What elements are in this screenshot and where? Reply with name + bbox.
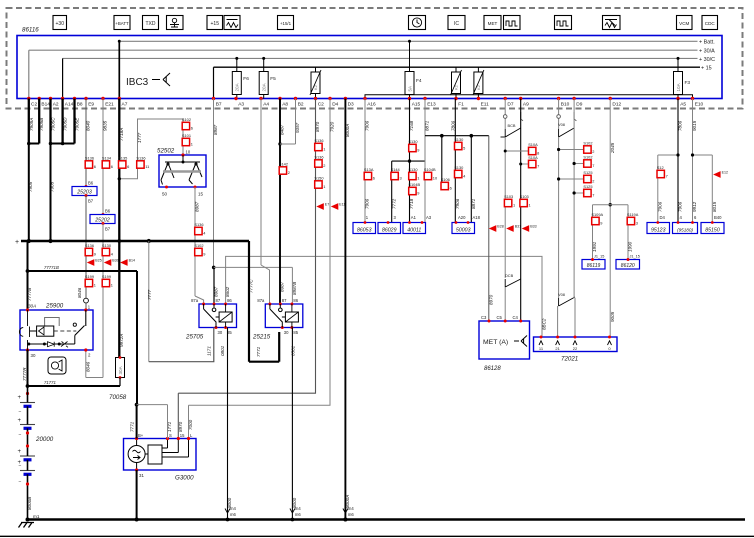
svg-text:E13: E13 (427, 102, 436, 108)
svg-text:(95180): (95180) (677, 227, 693, 232)
svg-text:S136: S136 (85, 243, 94, 248)
svg-text:7771: 7771 (130, 421, 135, 432)
splice S102 (584, 146, 591, 153)
connector ref box 86053 (353, 223, 376, 234)
splice S103 (504, 199, 511, 206)
svg-text:A2: A2 (53, 102, 59, 108)
svg-text:9005: 9005 (610, 311, 615, 322)
svg-text:8987: 8987 (280, 281, 285, 292)
svg-text:−: − (19, 479, 22, 485)
svg-text:E10: E10 (695, 102, 704, 108)
svg-text:86029: 86029 (382, 227, 397, 233)
svg-text:8487: 8487 (280, 124, 285, 135)
svg-text:6: 6 (127, 164, 129, 169)
svg-text:B40: B40 (714, 215, 722, 220)
inner wire to pins A16 and E10 (365, 95, 693, 99)
svg-text:1991: 1991 (592, 241, 597, 252)
svg-text:7777R: 7777R (22, 367, 27, 381)
svg-text:7906: 7906 (365, 198, 370, 209)
svg-text:m4: m4 (295, 506, 301, 511)
svg-text:E11: E11 (481, 102, 490, 108)
svg-text:6: 6 (111, 164, 113, 169)
svg-text:S130: S130 (102, 243, 112, 248)
svg-text:8046: 8046 (85, 361, 90, 372)
svg-text:F3: F3 (685, 80, 691, 86)
svg-text:25203: 25203 (76, 189, 92, 195)
splice S130 (102, 248, 109, 255)
icon box +30 (53, 16, 67, 30)
svg-text:B10: B10 (561, 102, 570, 108)
svg-text:1: 1 (323, 146, 325, 151)
svg-text:B25: B25 (95, 259, 101, 263)
icon box heated resistor (224, 16, 240, 30)
svg-text:86128: 86128 (484, 366, 501, 372)
circuit breaker element (315, 67, 317, 72)
svg-text:8987: 8987 (194, 201, 199, 212)
splice S130 (455, 142, 462, 149)
svg-text:1: 1 (111, 282, 113, 287)
svg-text:15: 15 (198, 192, 204, 197)
wire drop to pin A7 from +Batt rail (118, 41, 120, 98)
svg-text:S12: S12 (657, 165, 664, 170)
splice stubs to S102 S125 squares (559, 149, 583, 151)
relay 25900 bottom rail with diode (29, 335, 75, 344)
svg-text:1: 1 (529, 202, 531, 207)
svg-text:K2: K2 (454, 84, 459, 90)
svg-text:2045: 2045 (610, 142, 615, 154)
splice S106 (441, 182, 448, 189)
svg-text:S130: S130 (454, 137, 464, 142)
svg-text:m6: m6 (230, 512, 236, 517)
svg-text:+15: +15 (211, 21, 220, 27)
reference arrow B28 (489, 225, 497, 232)
svg-text:1777: 1777 (137, 132, 142, 143)
svg-text:7905C: 7905C (51, 117, 56, 131)
svg-text:9835: 9835 (103, 120, 108, 131)
wire 7806 from pin A5 to 95180 (677, 99, 679, 223)
svg-text:B28: B28 (497, 225, 503, 229)
splice S136 (85, 161, 92, 168)
wire from 25705 pin 85 to ground (227, 328, 229, 520)
splice S136 (315, 143, 322, 150)
wire from pin A9 to MET C4 (520, 99, 522, 129)
svg-text:9015: 9015 (692, 120, 697, 131)
reference arrow B33 (522, 225, 530, 232)
svg-text:87: 87 (216, 298, 221, 303)
svg-text:S144: S144 (391, 167, 401, 172)
svg-text:A20: A20 (458, 215, 466, 220)
connector ref box 86119 (582, 260, 605, 270)
circuit breaker element (455, 67, 457, 72)
ground symbol m1 (19, 523, 35, 528)
svg-text:A3: A3 (238, 102, 244, 108)
svg-text:S102: S102 (182, 117, 191, 122)
wire 8602 from 72021 area to relay 25705 B6 (226, 256, 542, 337)
svg-text:S199: S199 (102, 274, 111, 279)
svg-text:30: 30 (31, 353, 36, 358)
svg-text:1: 1 (323, 184, 325, 189)
wire to relay 25900 pin 2 (102, 224, 104, 378)
svg-text:87a: 87a (191, 298, 199, 303)
jumper wire through F1 column (425, 135, 489, 137)
svg-text:30: 30 (284, 330, 289, 335)
svg-text:6: 6 (450, 185, 452, 190)
splice S102 (182, 122, 189, 129)
circuit breaker element (477, 67, 479, 72)
svg-text:+ Batt.: + Batt. (699, 40, 715, 46)
wire 7168 from pin A15 to 40011 (409, 99, 411, 223)
svg-text:7906: 7906 (657, 201, 662, 212)
svg-text:31: 31 (139, 473, 144, 478)
icon box resistance sensor (603, 16, 621, 30)
svg-text:25215: 25215 (252, 334, 271, 341)
svg-text:50003: 50003 (456, 227, 471, 233)
wire 77771 branch (28, 270, 138, 272)
svg-text:50: 50 (162, 192, 168, 197)
wire 1771 to terminal S (137, 404, 168, 406)
svg-text:B6: B6 (105, 209, 111, 214)
svg-text:C2: C2 (318, 102, 324, 108)
wire from pin D9 to 72021 pin 22 (573, 99, 575, 299)
wire 7777C from bus corner to relay 25215 pin 30 (248, 241, 250, 362)
wire 0501 from 25215 pin 85 to ground (291, 328, 293, 520)
svg-text:1771: 1771 (167, 421, 172, 432)
wire B+ from battery junction to generator (136, 405, 138, 439)
svg-text:E12: E12 (722, 171, 728, 175)
connector ref box (95180) (673, 223, 698, 234)
svg-text:V08: V08 (558, 292, 565, 297)
reference arrow E12 (713, 171, 721, 178)
svg-text:7718: 7718 (409, 198, 414, 209)
svg-text:+: + (15, 239, 19, 246)
svg-text:7920: 7920 (330, 121, 335, 132)
svg-text:S109A: S109A (591, 212, 603, 217)
splice S10A (529, 147, 536, 154)
svg-text:S10A: S10A (528, 142, 538, 147)
svg-text:8000A: 8000A (345, 124, 350, 137)
splice S119A (627, 217, 634, 224)
reference arrow B30 (104, 259, 112, 266)
fuse 70058 30A (118, 357, 121, 359)
svg-text:2: 2 (592, 149, 594, 154)
svg-text:7905: 7905 (50, 181, 55, 192)
svg-text:A5: A5 (680, 102, 686, 108)
svg-text:B6: B6 (88, 181, 94, 186)
svg-text:8040: 8040 (86, 120, 91, 131)
wire 8987B branch to relay 25215 B6 (214, 266, 293, 268)
svg-text:+30: +30 (56, 21, 65, 27)
splice S144 (391, 172, 398, 179)
wire drop to pin C2 (28, 50, 30, 98)
svg-text:S142: S142 (279, 162, 288, 167)
svg-text:A1: A1 (411, 215, 417, 220)
splice S134 (102, 161, 109, 168)
instrument MET (A) 86128 (479, 321, 530, 359)
splice S136 (195, 227, 202, 234)
svg-text:7771: 7771 (256, 346, 261, 357)
svg-text:30A: 30A (28, 304, 36, 309)
wire 7806 from pin F1 to 50003 (454, 99, 456, 223)
wire 9835 from pin E21 (102, 99, 104, 215)
wire 7906 jumper and splice S12 to 95123 (657, 155, 659, 223)
splice S102 (195, 248, 202, 255)
svg-text:25705: 25705 (185, 334, 204, 341)
svg-text:6: 6 (373, 175, 375, 180)
svg-text:5A: 5A (407, 85, 412, 92)
generator G3000 (124, 439, 197, 471)
connector ref box 86029 (378, 223, 401, 234)
svg-text:11: 11 (145, 164, 149, 169)
icon box +15 (207, 16, 223, 30)
svg-text:A15: A15 (412, 102, 421, 108)
svg-text:S103: S103 (520, 194, 529, 199)
svg-text:3: 3 (400, 175, 402, 180)
svg-text:1: 1 (417, 175, 419, 180)
splice S103 (520, 199, 527, 206)
icon box CDC (702, 16, 718, 30)
connector ref box 95123 (647, 223, 670, 234)
svg-text:S106: S106 (441, 177, 450, 182)
svg-text:S119A: S119A (627, 212, 639, 217)
svg-text:1: 1 (94, 282, 96, 287)
svg-text:95123: 95123 (651, 227, 666, 233)
relay 25215 (265, 304, 303, 328)
wire 8046 to relay 25900 pin 1 (85, 196, 87, 299)
svg-text:S150: S150 (314, 176, 324, 181)
svg-text:9357: 9357 (295, 122, 300, 133)
splice S109A (592, 217, 599, 224)
svg-text:m6: m6 (295, 512, 301, 517)
component icon under relay (48, 357, 66, 374)
svg-text:S125: S125 (583, 184, 592, 189)
svg-text:C5: C5 (497, 315, 503, 320)
svg-text:9: 9 (94, 251, 96, 256)
rail +30/C (63, 57, 698, 59)
svg-text:K2: K2 (476, 84, 481, 90)
svg-text:B33: B33 (530, 225, 536, 229)
fuse F6 20A (236, 58, 238, 71)
icon box pulse signal 2 (555, 16, 572, 30)
splice S136 (315, 160, 322, 167)
svg-text:S104B: S104B (424, 167, 436, 172)
svg-text:S102: S102 (583, 155, 592, 160)
svg-text:8970: 8970 (489, 294, 494, 305)
svg-text:+: + (18, 395, 22, 401)
svg-text:7000: 7000 (188, 419, 193, 430)
svg-text:7: 7 (592, 163, 594, 168)
svg-text:+ 30/C: + 30/C (699, 57, 715, 63)
wire 8987 from pin B7 to relay 25705 B7 (213, 99, 215, 268)
svg-text:8987B: 8987B (292, 282, 297, 295)
icon box +15/1 (278, 16, 294, 30)
svg-text:6: 6 (191, 125, 193, 130)
svg-text:8970: 8970 (178, 421, 183, 432)
relay 25705 (199, 304, 237, 328)
svg-text:6: 6 (94, 164, 96, 169)
dashed border of power distribution section (7, 8, 743, 109)
svg-text:40011: 40011 (407, 227, 421, 233)
svg-text:B7: B7 (88, 199, 94, 204)
svg-text:71771: 71771 (44, 380, 57, 385)
svg-text:15: 15 (180, 433, 185, 438)
svg-text:−: − (19, 409, 22, 415)
svg-text:7906: 7906 (455, 198, 460, 209)
svg-text:8987: 8987 (214, 286, 219, 297)
wire from fuse 70058 to battery junction (119, 378, 121, 387)
svg-text:8046: 8046 (77, 287, 82, 298)
svg-text:A8: A8 (282, 102, 288, 108)
splice S130 (455, 170, 462, 177)
icon box TXD (143, 16, 159, 30)
wire from pin A4 to relay 25215 B7a (260, 99, 262, 266)
svg-text:+ 15: + 15 (701, 66, 712, 72)
rail +30/A (29, 49, 698, 51)
svg-text:B14: B14 (129, 259, 135, 263)
svg-text:TXD: TXD (146, 21, 156, 27)
svg-text:9: 9 (203, 251, 205, 256)
splice S10A (529, 160, 536, 167)
svg-text:F4: F4 (416, 78, 422, 84)
wire 8487 from pin A8 to relay 25215 B7 (279, 99, 281, 305)
svg-text:A4: A4 (263, 102, 269, 108)
branch wires 1991 1990 to 86119 86120 (593, 204, 629, 206)
wire 7772 branch to 86029 (392, 160, 425, 162)
svg-text:F6: F6 (243, 76, 249, 82)
svg-text:2: 2 (323, 163, 325, 168)
svg-text:C3: C3 (481, 315, 487, 320)
svg-text:1171: 1171 (207, 346, 212, 356)
svg-text:S136: S136 (314, 138, 323, 143)
svg-text:F5: F5 (270, 76, 276, 82)
wire 1777 to switch 52502 (119, 119, 183, 179)
splice S101 (182, 138, 189, 145)
battery 20000 (26, 392, 29, 395)
svg-text:S130: S130 (408, 139, 418, 144)
svg-text:10A: 10A (676, 82, 681, 91)
svg-text:D7: D7 (507, 102, 513, 108)
svg-text:A7: A7 (122, 102, 128, 108)
svg-text:8000B: 8000B (27, 497, 32, 510)
svg-text:7906: 7906 (365, 120, 370, 131)
svg-text:S199: S199 (85, 274, 94, 279)
svg-text:7777B: 7777B (27, 288, 32, 301)
splice S150 (315, 181, 322, 188)
svg-text:7777C: 7777C (249, 279, 254, 293)
svg-text:BCB: BCB (508, 123, 516, 128)
svg-text:+BATT: +BATT (115, 21, 129, 26)
svg-text:S125: S125 (583, 170, 592, 175)
splice S135 (119, 161, 126, 168)
svg-text:A14: A14 (65, 102, 74, 108)
svg-text:DCB: DCB (505, 273, 514, 278)
svg-text:2: 2 (288, 170, 290, 175)
wire 9357 from pin B2 (295, 99, 297, 145)
splice S125 (584, 189, 591, 196)
svg-text:1: 1 (513, 202, 515, 207)
svg-text:9912: 9912 (692, 201, 697, 212)
connector 72021 (534, 337, 618, 352)
IBC3 connector pins on bottom edge (27, 97, 30, 100)
svg-text:D4: D4 (332, 102, 338, 108)
svg-text:S10A: S10A (528, 155, 538, 160)
ground bus (28, 518, 746, 521)
svg-text:7905D: 7905D (63, 117, 68, 131)
svg-text:52502: 52502 (157, 148, 175, 155)
svg-text:3: 3 (636, 220, 638, 225)
wire 7718A from pin A7 to fuse 70058 (118, 99, 120, 358)
svg-text:7772: 7772 (391, 198, 396, 209)
svg-text:22: 22 (573, 346, 578, 351)
svg-text:9: 9 (417, 147, 419, 152)
wire drop to pin B7 from +15 rail (213, 67, 215, 98)
svg-text:+: + (18, 460, 22, 466)
wire 7906 from pin A16 to 86053 (364, 99, 366, 223)
svg-text:20A: 20A (262, 82, 267, 91)
svg-text:E21: E21 (105, 102, 114, 108)
svg-text:+: + (18, 449, 22, 455)
reference arrow B31 (506, 225, 514, 232)
svg-text:1990: 1990 (628, 241, 633, 252)
svg-text:B14: B14 (41, 102, 50, 108)
rail +15 (214, 66, 701, 68)
svg-text:8970: 8970 (315, 121, 320, 132)
fuse F4 5A (409, 41, 411, 71)
svg-text:C2: C2 (31, 102, 37, 108)
svg-text:J1_15: J1_15 (594, 255, 604, 259)
connector ref box 40011 (403, 223, 426, 234)
svg-text:m4: m4 (348, 506, 354, 511)
reference arrow E11 (331, 203, 339, 210)
svg-text:30: 30 (218, 330, 223, 335)
module IBC3 box (17, 36, 722, 99)
svg-text:−: − (19, 432, 22, 438)
splice S199 (85, 279, 92, 286)
svg-text:+ 30/A: + 30/A (699, 48, 715, 54)
wire from pin D7 through switch BCB to MET C5 (504, 99, 506, 130)
splice S102 (584, 160, 591, 167)
svg-text:8015: 8015 (712, 201, 717, 212)
svg-text:8602: 8602 (225, 286, 230, 297)
wire 8000A from pin D3 to ground (344, 99, 346, 520)
svg-text:S130: S130 (408, 167, 418, 172)
svg-text:86: 86 (227, 298, 232, 303)
splice S12 (657, 170, 664, 177)
svg-text:87a: 87a (257, 298, 265, 303)
svg-text:S136: S136 (136, 156, 145, 161)
svg-text:7168: 7168 (409, 120, 414, 131)
wire 1171 from 25705 pin 30 to 7777 column (149, 328, 214, 362)
svg-text:S101: S101 (182, 133, 191, 138)
svg-text:7: 7 (592, 192, 594, 197)
svg-text:A9: A9 (523, 102, 529, 108)
svg-text:70058: 70058 (109, 394, 127, 401)
svg-text:20000: 20000 (35, 436, 54, 443)
svg-text:D9: D9 (576, 102, 582, 108)
svg-text:K2: K2 (313, 84, 318, 90)
svg-text:S103: S103 (504, 194, 513, 199)
svg-text:8871: 8871 (425, 120, 430, 131)
reference arrow E7 (316, 203, 324, 210)
svg-text:30A: 30A (118, 365, 123, 374)
icon box pulse signal (504, 16, 521, 30)
svg-text:21: 21 (555, 346, 560, 351)
wire 2045 from pin D12 to 72021 pin 0 (609, 99, 611, 338)
wire from 52502 pin 15 to relay 25705 B7a (194, 187, 196, 296)
svg-text:S: S (169, 433, 172, 438)
svg-text:E7: E7 (325, 203, 329, 207)
svg-text:S104B: S104B (408, 182, 420, 187)
svg-text:7905: 7905 (28, 181, 33, 192)
